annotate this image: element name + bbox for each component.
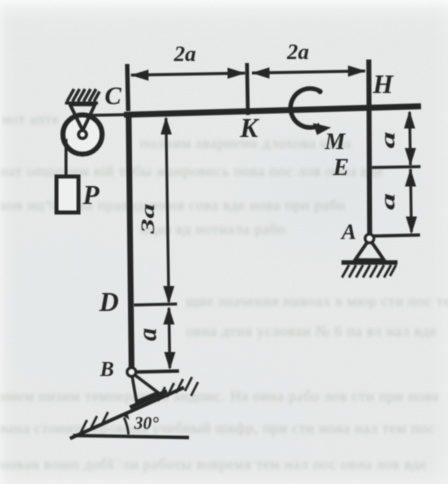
svg-text:2a: 2a [286,39,309,64]
svg-text:D: D [98,287,119,317]
svg-text:A: A [340,219,357,244]
svg-text:K: K [239,113,260,143]
svg-text:a: a [377,131,399,148]
svg-text:B: B [99,357,114,381]
svg-text:a: a [377,193,399,210]
svg-text:3a: 3a [138,204,158,235]
svg-text:E: E [332,155,349,181]
svg-text:C: C [105,83,122,110]
svg-text:a: a [133,328,162,341]
svg-text:M: M [324,129,347,154]
svg-text:H: H [372,70,394,99]
svg-text:P: P [82,180,100,210]
svg-text:2a: 2a [173,41,196,66]
svg-text:30°: 30° [133,413,159,433]
